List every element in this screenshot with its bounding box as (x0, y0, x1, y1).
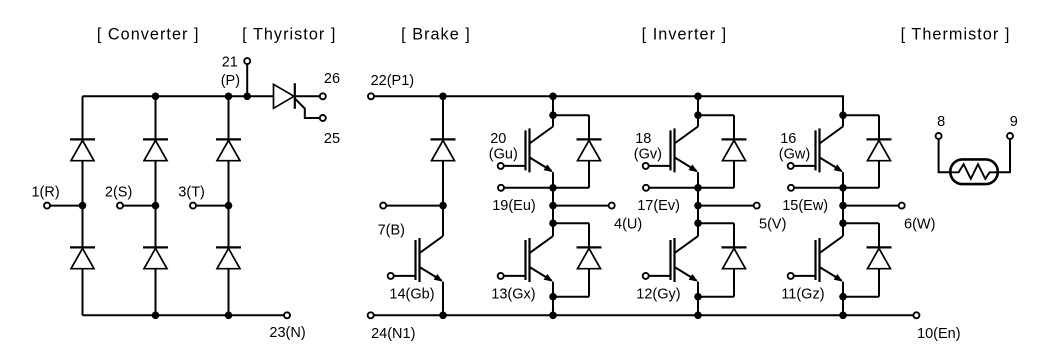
wire 4(U) upper diode bottom drop (588, 161, 590, 188)
terminal 1(R) (44, 203, 50, 209)
junction 4(U) lower diode branch bottom (549, 293, 557, 301)
terminal 5(V) (754, 203, 760, 209)
terminal 16(Gw) (788, 163, 794, 169)
wire 4(U) lower diode bottom (553, 296, 589, 298)
wire terminal 7(B) to leg (386, 205, 443, 207)
junction 5(V) upper diode branch (694, 111, 702, 119)
wire converter leg 3 lower (228, 269, 230, 316)
wire 4(U) upper diode drop (588, 115, 590, 139)
wire 4(U) lower diode drop (588, 223, 590, 247)
svg-text:23(N): 23(N) (269, 325, 305, 341)
wire brake leg middle (442, 161, 444, 206)
diode D1 (70, 138, 95, 140)
junction 5(V) leg / P1 rail (694, 93, 702, 101)
junction 5(V) leg / N1 rail (694, 312, 702, 320)
junction 6(W) upper diode branch (839, 111, 847, 119)
terminal 14(Gb) (388, 273, 394, 279)
svg-text:[ Inverter ]: [ Inverter ] (642, 26, 727, 44)
wire 5(V) leg from rail (697, 96, 699, 115)
wire 5(V) leg lower (697, 282, 699, 316)
wire terminal 21 to rail (246, 64, 248, 96)
wire 5(V) upper diode drop (733, 115, 735, 139)
wire terminal 2(S) to leg (123, 205, 156, 207)
diode upper freewheel 4(U) (577, 138, 602, 140)
wire 5(V) lower diode bottom drop (733, 269, 735, 297)
junction 6(W) lower diode branch bottom (839, 293, 847, 301)
wire 6(W) lower diode top (843, 222, 879, 224)
transistor lower IGBT 13(Gx) (524, 240, 526, 280)
wire 4(U) lower collector (552, 223, 554, 236)
wire converter leg 1 upper (82, 96, 84, 139)
svg-text:24(N1): 24(N1) (371, 326, 415, 342)
transistor Q7 brake IGBT (414, 240, 416, 280)
wire 5(V) lower collector (697, 223, 699, 236)
junction brake leg / P1 rail (439, 93, 447, 101)
terminal 6(W) (899, 203, 905, 209)
wire converter leg 3 middle (228, 161, 230, 248)
junction 6(W) leg / N1 rail (839, 312, 847, 320)
wire thermistor left (939, 139, 951, 172)
wire 4(U) output (553, 205, 609, 207)
terminal 25 (320, 115, 326, 121)
wire 5(V) upper collector (697, 115, 699, 126)
svg-text:5(V): 5(V) (759, 217, 786, 233)
wire 6(W) lower diode bottom drop (878, 269, 880, 297)
svg-text:[ Thyristor ]: [ Thyristor ] (242, 26, 336, 44)
svg-text:14(Gb): 14(Gb) (389, 287, 434, 303)
thermistor TH1 body (950, 159, 998, 184)
svg-text:12(Gy): 12(Gy) (636, 287, 680, 303)
junction bottom rail (225, 312, 233, 320)
wire thyristor gate (295, 99, 320, 119)
svg-text:[ Thermistor ]: [ Thermistor ] (901, 26, 1011, 44)
wire 4(U) leg from rail (552, 96, 554, 115)
svg-text:(P): (P) (221, 73, 240, 89)
terminal 9 (1007, 133, 1013, 139)
svg-text:9: 9 (1010, 114, 1018, 130)
junction 4(U) output (549, 202, 557, 210)
junction top rail (225, 93, 233, 101)
wire terminal 3(T) to leg (196, 205, 229, 207)
terminal 8 (936, 133, 942, 139)
thermistor TH1 resistor zigzag (950, 164, 998, 179)
wire N1 bottom rail (374, 314, 913, 316)
wire 4(U) lower diode top (553, 222, 589, 224)
wire 4(U) leg lower (552, 282, 554, 316)
terminal 3(T) (190, 203, 196, 209)
svg-text:11(Gz): 11(Gz) (781, 287, 824, 303)
junction 5(V) lower diode branch bottom (694, 293, 702, 301)
wire gate 14(Gb) (394, 275, 416, 277)
svg-text:(Gu): (Gu) (489, 146, 518, 162)
wire 6(W) upper diode bottom drop (878, 161, 880, 188)
thyristor SCR anode triangle (274, 84, 295, 108)
wire 6(W) output (843, 205, 899, 207)
svg-text:17(Ev): 17(Ev) (637, 198, 680, 214)
svg-text:(Gv): (Gv) (634, 146, 662, 162)
transistor upper IGBT (Gw) (814, 130, 816, 170)
junction node B (439, 202, 447, 210)
wire thyristor cathode to terminal 26 (295, 95, 320, 97)
diode D7 brake (431, 138, 456, 140)
wire 5(V) leg mid (697, 172, 699, 223)
wire 5(V) upper diode top (698, 114, 734, 116)
terminal 17(Ev) (643, 185, 649, 191)
terminal 18(Gv) (643, 163, 649, 169)
junction 6(W) output (839, 202, 847, 210)
svg-text:18: 18 (635, 131, 651, 147)
wire 6(W) lower diode bottom (843, 296, 879, 298)
junction 17(Ev) (694, 184, 702, 192)
junction 5(V) output (694, 202, 702, 210)
junction node 1(R) leg (79, 202, 87, 210)
svg-text:8: 8 (937, 114, 945, 130)
diode D4 (143, 246, 168, 248)
wire brake leg upper (442, 96, 444, 139)
junction brake leg / N1 rail (439, 312, 447, 320)
wire 4(U) upper diode bottom (553, 187, 589, 189)
wire gate 12(Gy) (649, 275, 671, 277)
junction 15(Ew) (839, 184, 847, 192)
junction 4(U) leg / P1 rail (549, 93, 557, 101)
junction 19(Eu) (549, 184, 557, 192)
svg-text:26: 26 (324, 71, 340, 87)
wire 6(W) upper diode drop (878, 115, 880, 139)
diode upper freewheel 6(W) (867, 138, 892, 140)
svg-text:22(P1): 22(P1) (371, 73, 415, 89)
wire converter leg 2 middle (155, 161, 157, 248)
svg-text:[ Converter ]: [ Converter ] (97, 26, 200, 44)
wire gate (Gw) (794, 165, 816, 167)
wire gate 13(Gx) (504, 275, 526, 277)
transistor upper IGBT (Gv) (669, 130, 671, 170)
wire 5(V) lower diode bottom (698, 296, 734, 298)
terminal 10(En) (913, 312, 919, 318)
thyristor SCR cathode bar (294, 83, 296, 109)
wire converter bottom rail (83, 314, 288, 316)
terminal 2(S) (117, 203, 123, 209)
junction 4(U) lower diode branch top (549, 219, 557, 227)
svg-text:19(Eu): 19(Eu) (492, 198, 536, 214)
svg-text:2(S): 2(S) (105, 185, 132, 201)
junction 6(W) lower diode branch top (839, 219, 847, 227)
diode lower freewheel 4(U) (577, 246, 602, 248)
wire gate (Gu) (504, 165, 526, 167)
svg-text:[ Brake ]: [ Brake ] (401, 26, 471, 44)
junction 4(U) upper diode branch (549, 111, 557, 119)
wire gate 11(Gz) (794, 275, 816, 277)
terminal 22(P1) (368, 93, 374, 99)
svg-text:21: 21 (222, 55, 238, 71)
terminal 7(B) (380, 203, 386, 209)
terminal 11(Gz) (788, 273, 794, 279)
wire 4(U) lower diode bottom drop (588, 269, 590, 297)
wire converter leg 2 lower (155, 269, 157, 316)
terminal 23(N) (284, 312, 290, 318)
svg-text:(Gw): (Gw) (779, 146, 810, 162)
svg-text:3(T): 3(T) (178, 185, 205, 201)
wire P1 top rail (374, 96, 843, 115)
wire 5(V) lower diode drop (733, 223, 735, 247)
junction node 2(S) leg (152, 202, 160, 210)
wire converter top rail (83, 95, 274, 97)
diode lower freewheel 5(V) (722, 246, 747, 248)
wire 5(V) output (698, 205, 754, 207)
terminal 12(Gy) (643, 273, 649, 279)
terminal 26 (320, 93, 326, 99)
transistor upper IGBT (Gu) (524, 130, 526, 170)
junction node 21 (243, 93, 251, 101)
wire gate (Gv) (649, 165, 671, 167)
svg-text:1(R): 1(R) (31, 185, 59, 201)
wire 6(W) upper diode bottom (843, 187, 879, 189)
diode upper freewheel 5(V) (722, 138, 747, 140)
terminal 24(N1) (368, 312, 374, 318)
svg-text:4(U): 4(U) (614, 217, 642, 233)
wire 4(U) upper collector (552, 115, 554, 126)
junction bottom rail (152, 312, 160, 320)
diode D5 (216, 138, 241, 140)
diode lower freewheel 6(W) (867, 246, 892, 248)
wire terminal 1(R) to leg (50, 205, 83, 207)
terminal 21(P) (244, 58, 250, 64)
terminal 13(Gx) (498, 273, 504, 279)
svg-text:10(En): 10(En) (917, 326, 961, 342)
wire thermistor right (998, 139, 1010, 172)
diode D2 (70, 246, 95, 248)
wire 4(U) upper diode top (553, 114, 589, 116)
transistor lower IGBT 12(Gy) (669, 240, 671, 280)
wire 6(W) upper collector (842, 115, 844, 126)
svg-text:6(W): 6(W) (904, 217, 935, 233)
wire brake emitter to N1 (442, 282, 444, 316)
wire 5(V) lower diode top (698, 222, 734, 224)
svg-text:20: 20 (490, 131, 506, 147)
wire 5(V) upper diode bottom (698, 187, 734, 189)
wire brake collector (442, 206, 444, 237)
wire 4(U) leg mid (552, 172, 554, 223)
svg-text:16: 16 (780, 131, 796, 147)
diode D6 (216, 246, 241, 248)
wire converter leg 1 lower (82, 269, 84, 316)
terminal 4(U) (609, 203, 615, 209)
wire 6(W) leg lower (842, 282, 844, 316)
diode D3 (143, 138, 168, 140)
junction 4(U) leg / N1 rail (549, 312, 557, 320)
wire 6(W) upper diode top (843, 114, 879, 116)
wire 19(Eu) to leg (504, 187, 553, 189)
transistor lower IGBT 11(Gz) (814, 240, 816, 280)
terminal 15(Ew) (788, 185, 794, 191)
wire converter leg 1 middle (82, 161, 84, 248)
wire converter leg 3 upper (228, 96, 230, 139)
junction node 3(T) leg (225, 202, 233, 210)
terminal 20(Gu) (498, 163, 504, 169)
wire 6(W) leg mid (842, 172, 844, 223)
wire 15(Ew) to leg (794, 187, 843, 189)
wire 5(V) upper diode bottom drop (733, 161, 735, 188)
wire 17(Ev) to leg (649, 187, 698, 189)
junction top rail (152, 93, 160, 101)
terminal 19(Eu) (498, 185, 504, 191)
svg-text:13(Gx): 13(Gx) (491, 287, 535, 303)
wire converter leg 2 upper (155, 96, 157, 139)
wire 6(W) lower diode drop (878, 223, 880, 247)
svg-text:15(Ew): 15(Ew) (782, 198, 828, 214)
wire 6(W) lower collector (842, 223, 844, 236)
svg-text:25: 25 (324, 131, 340, 147)
junction 5(V) lower diode branch top (694, 219, 702, 227)
svg-text:7(B): 7(B) (378, 223, 405, 239)
